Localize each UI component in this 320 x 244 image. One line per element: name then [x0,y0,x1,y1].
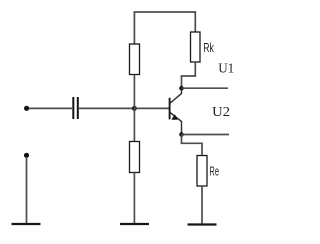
resistor Re [197,156,207,187]
wire R1 to node [133,75,135,109]
wire bottom terminal to ground [26,157,28,224]
wire Rk to collector junction [182,62,196,88]
resistor Rk [191,32,201,62]
wire R2 to ground [133,173,135,224]
wire top rail [134,12,195,44]
wire node to R2 [133,108,135,141]
node junction base [132,106,137,111]
capacitor C1 [73,97,78,119]
svg-text:Re: Re [209,165,219,179]
ground middle [120,223,149,225]
svg-text:U1: U1 [218,61,234,76]
resistor R1 upper divider [130,44,140,75]
node emitter junction [179,132,184,137]
wire output U2 [182,134,230,136]
node input terminal top [24,106,29,111]
wire Re to ground [201,186,203,224]
wire output U1 [182,87,229,89]
resistor R2 lower divider [130,142,140,173]
svg-text:Rk: Rk [203,41,214,55]
wire node to base [134,107,169,109]
transistor Q1 [170,88,182,134]
node input terminal bottom [24,153,29,158]
wire capacitor to node [79,107,134,109]
ground left [12,223,41,225]
svg-text:U2: U2 [212,104,230,119]
node collector junction [179,86,184,91]
ground right [188,223,217,225]
wire emitter to Re [182,135,203,156]
wire input to capacitor [29,107,72,109]
